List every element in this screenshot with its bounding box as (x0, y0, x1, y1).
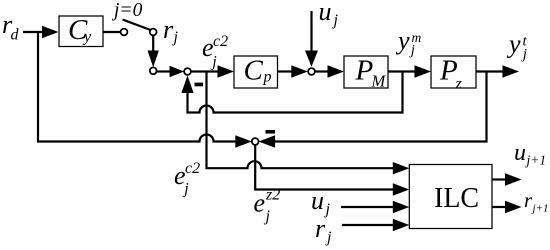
label u_j top (319, 0, 339, 29)
wire ILC output u (492, 173, 522, 185)
svg-text:c2: c2 (185, 160, 200, 177)
switch contact node right (150, 29, 157, 36)
svg-text:j=0: j=0 (111, 0, 143, 21)
summing junction sum3 (252, 138, 259, 145)
label e_j_c2 upper (202, 33, 228, 71)
label r_d (2, 10, 20, 44)
wire Pz output (476, 65, 519, 77)
svg-text:y: y (506, 30, 521, 59)
label e_j_c2 lower (174, 160, 200, 198)
svg-text:z2: z2 (265, 187, 280, 204)
label r_j lower (315, 214, 332, 246)
svg-text:j: j (172, 29, 179, 46)
wire rd feedforward (38, 32, 252, 148)
switch contact node left (121, 29, 128, 36)
svg-text:j: j (264, 208, 271, 225)
wire ILC output r (492, 201, 522, 213)
block C_p (234, 55, 278, 89)
svg-text:c2: c2 (213, 33, 228, 50)
wire sum2 to PM (315, 65, 344, 77)
wire uj vertical input (305, 11, 318, 67)
label y_j_m (395, 26, 422, 59)
summing junction sum1 (184, 68, 191, 75)
svg-text:u: u (514, 140, 526, 166)
wire sum1 to Cp (191, 65, 234, 77)
wire PM to Pz (388, 65, 431, 77)
svg-text:j+1: j+1 (531, 203, 549, 215)
svg-text:z: z (455, 76, 463, 93)
label r_j+1 (524, 188, 548, 215)
svg-text:r: r (315, 214, 326, 243)
block C_y (59, 14, 103, 47)
svg-text:ILC: ILC (434, 183, 479, 214)
wire switch down (148, 35, 159, 67)
wire Cy output (103, 31, 120, 33)
svg-text:C: C (244, 55, 264, 87)
svg-text:u: u (311, 186, 324, 215)
label u_j+1 (514, 140, 546, 168)
block ILC (409, 165, 492, 229)
switch lever (123, 20, 151, 31)
svg-text:P: P (355, 55, 374, 87)
wire ez2 to ILC (255, 145, 409, 196)
minus sign at sum1 (195, 83, 204, 87)
wire uj to ILC (341, 201, 409, 213)
summing junction sum2 (308, 68, 315, 75)
wire ec2 tap to ILC (207, 72, 410, 175)
svg-text:y: y (395, 26, 410, 55)
label r_j (163, 15, 179, 46)
label u_j lower (311, 186, 331, 218)
svg-text:j: j (332, 12, 339, 29)
label y_j_t (506, 30, 528, 63)
node circle above sum1 (150, 67, 157, 74)
svg-text:j: j (325, 229, 332, 246)
svg-text:p: p (263, 69, 272, 86)
svg-text:u: u (319, 0, 332, 26)
wire rj to ILC (342, 219, 409, 231)
wire ym feedback (181, 72, 402, 113)
svg-text:j: j (182, 181, 189, 198)
wire rd input (23, 26, 59, 38)
svg-text:d: d (11, 27, 20, 44)
svg-text:j+1: j+1 (525, 153, 547, 168)
svg-text:M: M (371, 72, 387, 91)
wire Cp to sum2 (278, 65, 308, 77)
block P_M (344, 55, 388, 91)
wire node to sum1 (157, 66, 185, 77)
svg-text:e: e (254, 189, 266, 218)
minus sign at sum3 (266, 130, 276, 134)
block P_z (431, 55, 476, 93)
svg-text:j: j (210, 54, 217, 71)
svg-text:y: y (82, 29, 92, 46)
svg-text:r: r (163, 15, 174, 44)
wire yt feedback (259, 72, 487, 148)
label e_j_z2 (254, 187, 281, 226)
